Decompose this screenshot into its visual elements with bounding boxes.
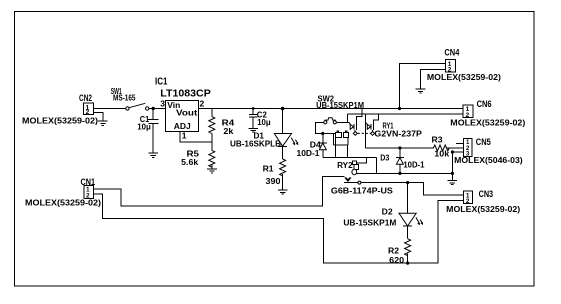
svg-text:5.6k: 5.6k (181, 157, 198, 167)
wire node A (coil bottom rail) (323, 157, 377, 159)
svg-text:10μ: 10μ (257, 117, 271, 127)
svg-text:MOLEX(53259-02): MOLEX(53259-02) (22, 115, 98, 125)
svg-text:10D-1: 10D-1 (403, 160, 424, 170)
wire rail2 (switched rail to CN6 pin2) (348, 113, 463, 115)
svg-text:CN2: CN2 (79, 93, 92, 103)
connector CN6 (463, 105, 473, 117)
svg-text:MOLEX(5046-03): MOLEX(5046-03) (454, 155, 523, 165)
svg-text:CN6: CN6 (477, 99, 492, 109)
wire SW2 right to contact arm (337, 121, 350, 123)
relay contact RY1-a (349, 122, 350, 124)
connector CN2 (83, 103, 93, 114)
svg-text:Vout: Vout (176, 107, 197, 117)
svg-text:CN1: CN1 (81, 177, 96, 187)
node R2 bottom rail junction (406, 262, 409, 265)
ground at C1 (149, 153, 159, 157)
wire SW2 left to node (316, 122, 324, 133)
svg-text:MS-165: MS-165 (113, 93, 136, 103)
connector CN1 (84, 185, 94, 198)
svg-text:MOLEX(53259-02): MOLEX(53259-02) (427, 72, 501, 82)
svg-text:3: 3 (160, 98, 165, 108)
node SW2/D4/RY1 junction (321, 132, 324, 135)
svg-text:G2VN-237P: G2VN-237P (374, 130, 422, 139)
wire CN2 pin2 to ground (94, 113, 103, 121)
svg-text:CN3: CN3 (479, 189, 494, 199)
svg-text:390: 390 (266, 176, 281, 186)
relay contact RY2 (G6B) line and pivot (344, 182, 358, 184)
svg-text:R3: R3 (432, 134, 443, 144)
svg-text:10D-1: 10D-1 (297, 148, 320, 158)
svg-text:R1: R1 (263, 164, 274, 174)
ground at CN4 (416, 89, 426, 93)
wire node B (RY2 bottom to CN5 ground rail) (357, 172, 453, 174)
connector CN5 (464, 138, 473, 156)
node D2 junction (406, 181, 409, 184)
node CN4 rail junction (398, 107, 401, 110)
svg-text:G6B-1174P-US: G6B-1174P-US (331, 185, 393, 195)
svg-text:620: 620 (389, 255, 404, 265)
wire Vout rail (main +V rail) (198, 108, 463, 110)
svg-text:D2: D2 (382, 206, 393, 216)
svg-text:UB-15SKP1M: UB-15SKP1M (343, 218, 396, 228)
wire contact output to R3 (365, 147, 433, 149)
linkage dashed line (358, 132, 371, 134)
svg-text:2k: 2k (223, 126, 233, 136)
svg-text:CN5: CN5 (476, 137, 491, 147)
wire CN1 pin2 to bottom rail (93, 194, 463, 263)
wire CN4 pin2 to ground (420, 69, 445, 89)
wire CN1 pin1 to relay contact G6B (93, 177, 344, 207)
svg-text:UB-16SKPLB: UB-16SKPLB (230, 139, 281, 149)
svg-text:MOLEX(53259-02): MOLEX(53259-02) (446, 204, 520, 214)
wire RY2 top jog (356, 158, 366, 163)
ground at C2 (248, 128, 258, 132)
wire CN5 pin3 (452, 152, 463, 173)
svg-text:MOLEX(53259-02): MOLEX(53259-02) (450, 118, 525, 128)
svg-text:D3: D3 (380, 153, 389, 163)
wire CN4 pin1 to rail (400, 64, 446, 109)
wire IC1 ADJ pin 1 (180, 131, 212, 142)
ground at R5 (207, 169, 217, 173)
connector CN4 (445, 60, 455, 72)
linkage diamond 1 (354, 130, 356, 132)
wire SW1 to IC1 Vin (149, 108, 166, 110)
svg-text:MOLEX(53259-02): MOLEX(53259-02) (25, 198, 101, 208)
wire CN2 pin1 to SW1 (94, 108, 126, 110)
ground at R1 (278, 190, 288, 194)
wire CN5 pin1 stub (456, 142, 464, 144)
svg-text:2: 2 (200, 98, 205, 108)
relay contact RY1-b (364, 114, 366, 148)
ground at CN5 (451, 173, 453, 180)
connector CN3 (464, 191, 473, 204)
svg-text:RY2: RY2 (337, 161, 353, 170)
svg-text:UB-15SKP1M: UB-15SKP1M (316, 100, 364, 110)
ground at CN2 (98, 121, 108, 126)
relay coil RY1 (324, 132, 335, 134)
node D1 rail junction (281, 107, 285, 111)
node SW1/C1 junction (152, 107, 155, 110)
svg-text:IC1: IC1 (155, 77, 168, 88)
relay contact RY2 (G6B) arrow (345, 178, 351, 182)
svg-text:1: 1 (182, 130, 187, 140)
svg-text:CN4: CN4 (444, 48, 459, 58)
linkage diamond 2 (371, 130, 373, 132)
